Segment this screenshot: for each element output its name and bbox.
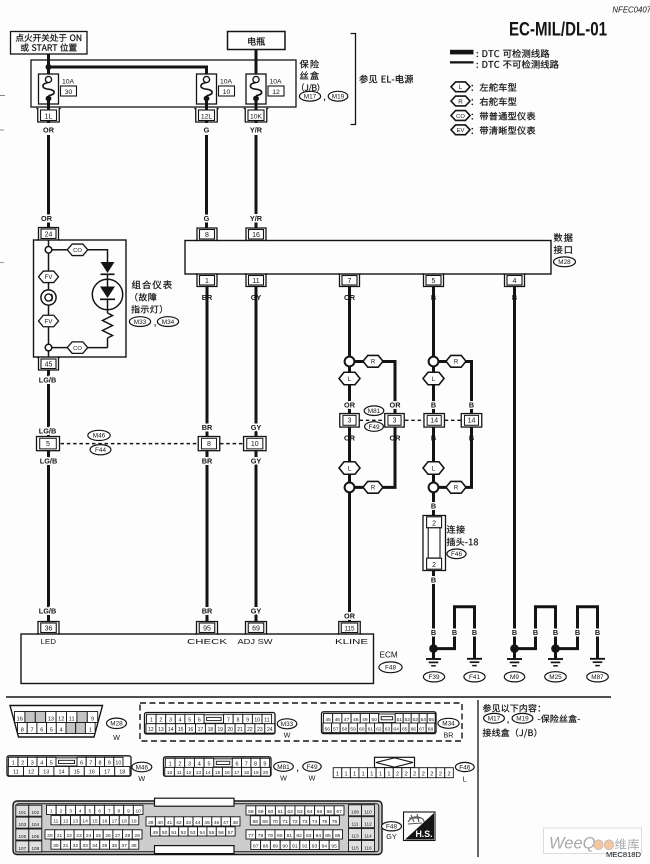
svg-text:5: 5 [89,808,92,814]
svg-text:22: 22 [67,833,73,839]
svg-text:,: , [323,92,325,102]
svg-text:13: 13 [48,716,54,722]
ground bridge M9-M25 [518,607,556,649]
svg-text:R: R [454,360,459,366]
ECM box outline [21,634,374,684]
pinout ref F46 [455,762,474,783]
svg-text:5: 5 [432,278,436,285]
svg-text:32: 32 [73,843,79,849]
wire OR L to conn3 [348,385,351,414]
svg-text:1L: 1L [45,114,53,121]
pinout connector M33 [145,713,276,735]
svg-text:M34: M34 [442,721,455,728]
pinout ref M81 [274,762,294,783]
wire B DLC5 down [432,287,435,358]
svg-text:M19: M19 [516,716,529,723]
page ref MEC818D [606,850,642,859]
svg-text:62: 62 [376,726,382,732]
ground junction dot F39 [429,644,438,653]
svg-text:M81: M81 [277,764,290,771]
wire ignition to fusebox [47,54,50,77]
watermark WeeQoo [544,828,642,854]
svg-text:115: 115 [344,626,355,633]
svg-text:69: 69 [262,819,268,825]
svg-text:8: 8 [99,760,102,766]
svg-text:6: 6 [198,718,201,724]
svg-text:17: 17 [112,819,118,825]
svg-text:24: 24 [45,232,53,239]
meter internal wire top [48,240,50,246]
svg-text:GY: GY [251,607,262,616]
legend marker R [451,96,470,106]
svg-text:49: 49 [362,717,368,723]
svg-text:3: 3 [188,761,191,767]
svg-text:64: 64 [307,809,313,815]
svg-text:20: 20 [47,833,53,839]
svg-text:W: W [284,731,291,740]
svg-text:11: 11 [177,770,182,776]
svg-text:1: 1 [362,772,365,778]
wire label BR below DLC1 [202,293,213,302]
svg-text:2: 2 [178,761,181,767]
dashed option box [140,703,462,741]
meter MIL LED circle [92,279,122,309]
svg-text:11: 11 [264,718,270,724]
svg-text:12: 12 [58,716,64,722]
svg-text:B: B [431,576,436,585]
svg-text:M46: M46 [136,764,149,771]
svg-text:W: W [309,774,316,783]
wire OR KLINE long [348,492,351,622]
svg-text:45: 45 [325,717,331,723]
svg-text:4: 4 [513,278,517,285]
wire label BR above conn8 [202,423,213,432]
svg-text:GY: GY [386,832,397,841]
left edge stub 3 [0,262,4,264]
connector 4 DLC [503,274,526,287]
svg-text:BR: BR [202,607,213,616]
svg-text:78: 78 [258,833,264,839]
connector ref M19 [328,91,348,101]
svg-text:114: 114 [364,834,372,839]
svg-text:105: 105 [18,834,26,839]
svg-text:18: 18 [244,770,250,776]
svg-text:30: 30 [65,89,73,96]
ground ref F41 [464,672,485,682]
marker R lower B [446,481,466,493]
wire label GY above conn10 [251,423,262,432]
bottom ref M17 [484,713,505,723]
svg-text:15: 15 [215,770,221,776]
svg-text:F46: F46 [451,551,462,558]
svg-text:1: 1 [205,278,209,285]
svg-text:FV: FV [45,275,53,281]
wire label Y/R below 10K [250,126,263,135]
meter junction bottom circle [45,344,52,351]
combination meter outline [34,240,127,357]
separator line [6,696,611,698]
pin label KLINE [335,637,368,646]
svg-text:KLINE: KLINE [335,637,368,646]
svg-text:14: 14 [168,727,174,733]
meter resistor [103,299,113,347]
wire F39 dot to ground [432,649,435,659]
svg-text:63: 63 [297,809,303,815]
svg-text:2: 2 [439,772,442,778]
comma between M33 M34 [154,318,156,328]
connector 5 DLC [422,274,445,287]
svg-text:45: 45 [204,820,210,826]
svg-text:1: 1 [12,760,15,766]
battery box [228,32,286,50]
wire label GY below conn10 [251,457,262,466]
svg-text:57: 57 [228,830,234,836]
bracket see EL-power [351,34,356,125]
pinout connector M81/F49 [164,757,272,776]
svg-text:CHECK: CHECK [187,637,227,646]
meter wire bulb to FV2 [48,305,50,315]
svg-text:M33: M33 [134,319,147,326]
meter marker FV upper [39,271,59,283]
svg-text:16: 16 [252,232,260,239]
svg-text:8: 8 [118,808,121,814]
svg-text:B: B [431,628,436,637]
wire label G above DLC [204,214,210,223]
svg-text:31: 31 [63,843,69,849]
svg-text:50: 50 [162,830,168,836]
branch wire OR conn3c to R lower [354,427,396,487]
svg-text:71: 71 [282,819,288,825]
wire M9 dot to ground [513,649,516,659]
wire LG/B below meter [47,370,50,437]
svg-text:2: 2 [21,760,24,766]
svg-text:63: 63 [385,726,391,732]
svg-text:5: 5 [46,441,50,448]
svg-text:5: 5 [50,727,53,733]
svg-text:80: 80 [277,833,283,839]
svg-text:1: 1 [370,772,373,778]
svg-text:10K: 10K [250,114,263,121]
svg-text:38: 38 [131,843,137,849]
wire label B bridge1 b [472,628,477,637]
meter label 指示灯 [131,305,162,314]
wire label B bridge3 a [575,628,580,637]
wire battery to fuse3 [255,50,258,78]
svg-text:1: 1 [89,727,92,733]
svg-text:51: 51 [171,830,177,836]
connector ref M28 right [554,257,576,267]
wire OR circle to L [348,366,351,372]
svg-text:10: 10 [254,718,260,724]
svg-text:61: 61 [368,726,374,732]
wire OR col A long [47,135,50,228]
svg-text:45: 45 [45,362,53,369]
legend marker L [451,82,470,92]
svg-text:16: 16 [89,770,95,776]
connector 36 ECM [37,622,61,635]
pinout connector F48 ECM [13,798,382,854]
ground ref M25 [545,672,567,682]
junction circle B lower [429,483,439,493]
svg-text:21: 21 [57,833,63,839]
pinout ref M46 [132,762,152,783]
connector ref F48 ecm [379,662,402,673]
legend text DTC not detectable [477,60,559,69]
svg-text:2: 2 [60,808,63,814]
bottom comma [507,715,509,725]
text 参见以下内容 [483,704,540,712]
svg-text:BR: BR [202,423,213,432]
pinout connector M46 [7,756,131,776]
connector ref M34 [157,317,178,327]
svg-text:M33: M33 [281,721,294,728]
svg-text:EC-MIL/DL-01: EC-MIL/DL-01 [509,20,607,41]
meter marker CO lower [67,342,88,354]
svg-text:17: 17 [234,770,240,776]
svg-text:29: 29 [134,833,140,839]
svg-text:14: 14 [430,418,438,425]
svg-text:103: 103 [18,822,26,827]
wire label Y/R above DLC [250,214,263,223]
wire label B above F39 [431,628,436,637]
wire B DLC4 to ground [513,287,516,649]
svg-text:L: L [432,465,436,472]
svg-text:G: G [204,126,210,135]
wire label B below joint conn [431,576,436,585]
svg-text:93: 93 [312,843,318,849]
meter label 组合仪表 [132,280,172,289]
svg-text:25: 25 [96,833,102,839]
svg-text:M28: M28 [110,721,123,728]
svg-text:3: 3 [348,418,352,425]
svg-text:16: 16 [102,819,108,825]
pinout ref M28 [107,718,127,742]
pinout connector M28 [10,706,103,738]
legend thin line sample [450,61,474,63]
svg-text:53: 53 [412,717,418,723]
wire M25 dot to ground [554,649,557,659]
inline connector 5 M46/F44 [37,437,60,451]
svg-text:8: 8 [21,727,24,733]
svg-text:89: 89 [273,843,279,849]
svg-text:19: 19 [253,770,259,776]
svg-text:26: 26 [105,833,111,839]
svg-text:55: 55 [428,717,434,723]
bottom right divider [477,700,479,857]
svg-text:CO: CO [73,346,82,352]
wire label B bridge3 b [595,628,600,637]
ground bridge M25-M87 [559,607,598,659]
pinout ref M33 [277,719,297,740]
svg-text:110: 110 [364,810,372,815]
legend marker EV [451,125,470,135]
svg-text:52: 52 [181,830,187,836]
svg-text:14: 14 [205,770,211,776]
svg-text:106: 106 [31,834,39,839]
svg-text:47: 47 [223,820,229,826]
svg-text:2: 2 [405,772,408,778]
wire label B above conn14a [431,401,436,410]
svg-text:MEC818D: MEC818D [606,850,642,859]
svg-text:1: 1 [50,808,53,814]
svg-text:Y/R: Y/R [250,214,263,223]
svg-text:4: 4 [179,718,182,724]
svg-text:14: 14 [468,418,476,425]
svg-text:10A: 10A [220,79,233,86]
svg-text:B: B [553,628,558,637]
junction circle OR upper [345,357,355,367]
svg-text:F48: F48 [385,665,396,672]
svg-text:10: 10 [135,808,141,814]
svg-text:9: 9 [91,716,94,722]
svg-text:ADJ SW: ADJ SW [238,637,273,646]
wire label B above joint conn [431,502,436,511]
wire label LG/B below conn3 [40,457,57,466]
svg-text:5: 5 [188,718,191,724]
svg-text:2: 2 [413,772,416,778]
left edge stub 1 [0,95,5,97]
ground ref M87 [587,672,609,682]
svg-text:16: 16 [17,716,23,722]
fuse F3 10A 12 [246,74,284,104]
marker R upper OR [363,355,383,367]
wire label B below conn14b [469,434,474,443]
svg-text:6: 6 [40,727,43,733]
ground symbol F39 [426,659,441,666]
ground ref F39 [423,672,444,682]
svg-text:Y/R: Y/R [250,126,263,135]
wire B conn14a to L lower [432,427,435,462]
svg-text:43: 43 [186,820,192,826]
svg-text:10: 10 [115,760,121,766]
svg-text:112: 112 [364,822,372,827]
meter wire to FV1 [48,253,50,271]
ground symbol M25 [548,659,563,666]
svg-text:6: 6 [98,808,101,814]
svg-text:102: 102 [31,810,39,815]
legend text fine vision meter [472,126,536,135]
svg-text:54: 54 [199,830,205,836]
junction circle B upper [429,357,439,367]
svg-text:27: 27 [115,833,121,839]
pin label ADJ SW [238,637,273,646]
connector ref F44 [90,445,111,455]
svg-text:R: R [371,360,376,366]
svg-text:67: 67 [336,809,342,815]
svg-text:R: R [371,486,376,492]
svg-text:67: 67 [419,726,425,732]
svg-text:8: 8 [254,761,257,767]
svg-text:116: 116 [364,845,372,850]
svg-text:82: 82 [296,833,302,839]
svg-text:R: R [454,486,459,492]
svg-text:15: 15 [74,770,80,776]
svg-text:W: W [138,774,145,783]
svg-text:42: 42 [176,820,182,826]
svg-text:2: 2 [430,772,433,778]
wire fuse2 to 12L [205,99,208,123]
svg-text:83: 83 [306,833,312,839]
svg-text:11: 11 [252,278,259,285]
svg-text:18: 18 [121,819,127,825]
svg-text:109: 109 [351,810,359,815]
svg-text:66: 66 [411,726,417,732]
connector ref M46 mid [88,430,110,440]
wire label OR above conn3b [344,401,356,410]
svg-text:92: 92 [302,843,308,849]
svg-text:58: 58 [342,726,348,732]
fuse box label 保险丝盒 J/B [300,60,320,93]
connector 45 meter [37,358,60,371]
svg-text:4: 4 [198,761,201,767]
legend text DTC detectable [477,49,550,58]
wire label OR below conn3b [344,434,356,443]
svg-text:L: L [463,775,467,784]
meter wire to bulb [48,283,50,290]
meter bottom branch wire [52,347,108,349]
svg-text:9: 9 [246,718,249,724]
svg-text:13: 13 [43,770,49,776]
svg-text:65: 65 [317,809,323,815]
meter diode D1 [101,262,115,280]
svg-text:12: 12 [28,770,34,776]
svg-text:3: 3 [69,808,72,814]
svg-text:M81: M81 [368,408,381,415]
inline connector 8 M46/F44 [198,437,220,451]
connector 10K [244,109,269,123]
connector 8 DLC [196,228,219,241]
text 接线盒JB [483,728,537,737]
wire label GY below DLC11 [251,293,262,302]
svg-text:F49: F49 [306,764,317,771]
svg-text:10: 10 [251,441,259,448]
wire B joint conn to ground [432,571,435,649]
svg-text:10A: 10A [269,79,282,86]
wire B circle to L [432,366,435,372]
svg-text:13: 13 [158,727,164,733]
svg-text:14: 14 [59,770,65,776]
legend text LHD [472,83,517,92]
svg-text:18: 18 [119,770,125,776]
wire label OR below DLC7 [344,293,356,302]
marker L lower B [423,462,444,475]
joint connector-18 F46 [423,516,446,571]
svg-text:11: 11 [53,819,58,825]
svg-text:49: 49 [152,830,158,836]
svg-text:46: 46 [214,820,220,826]
wire label OR above meter [41,214,53,223]
svg-text:BR: BR [444,731,454,740]
svg-text:95: 95 [203,626,211,633]
fuse F2 10A 10 [197,74,235,104]
wire Y/R col C long [255,135,258,228]
svg-text:8: 8 [207,441,211,448]
svg-text:3: 3 [31,760,34,766]
svg-text:51: 51 [396,717,402,723]
svg-text:7: 7 [89,760,92,766]
svg-text:56: 56 [325,726,331,732]
svg-text:7: 7 [30,727,33,733]
svg-text:M87: M87 [591,674,604,681]
svg-text:M28: M28 [558,259,571,266]
svg-text:L: L [459,84,463,91]
wire ignition branch to fuse2 [49,67,207,77]
marker L lower OR [339,462,360,475]
legend text conventional meter [472,112,536,121]
svg-text:M34: M34 [162,319,175,326]
wire B L to conn14 [432,385,435,414]
connector 11 DLC [245,274,268,287]
